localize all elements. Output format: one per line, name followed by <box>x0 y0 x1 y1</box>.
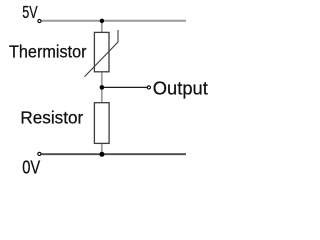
wire top rail to thermistor <box>101 21 103 33</box>
svg-text:Output: Output <box>153 77 208 98</box>
terminal 5V <box>38 19 41 22</box>
wire output <box>102 86 147 88</box>
wire bottom rail 0V <box>41 153 186 155</box>
junction bottom rail <box>99 152 104 157</box>
svg-text:Resistor: Resistor <box>20 107 83 127</box>
terminal 0V <box>38 152 41 155</box>
svg-text:Thermistor: Thermistor <box>9 42 87 62</box>
resistor R2 body <box>94 103 109 144</box>
wire top rail 5V <box>41 20 186 22</box>
junction top rail <box>100 19 104 23</box>
junction output node <box>100 85 105 90</box>
svg-text:5V: 5V <box>22 2 38 22</box>
terminal output <box>147 86 150 89</box>
svg-text:0V: 0V <box>22 158 41 178</box>
thermistor R1 diagonal stroke <box>85 30 119 77</box>
wire resistor to bottom rail <box>101 143 103 154</box>
thermistor R1 body <box>94 32 109 71</box>
wire thermistor to resistor <box>101 72 103 103</box>
